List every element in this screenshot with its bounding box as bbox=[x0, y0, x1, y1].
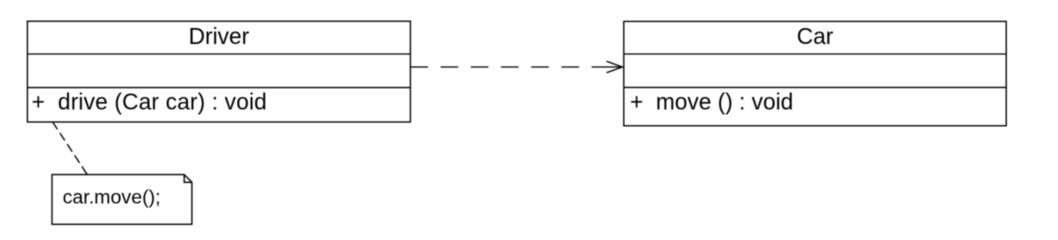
note fold triangle bbox=[184, 175, 192, 183]
Driver name/attribute divider bbox=[27, 53, 410, 55]
note anchor dashed line bbox=[53, 122, 88, 175]
dependency open arrowhead bbox=[607, 61, 623, 72]
note box with folded corner bbox=[52, 175, 192, 225]
Car name/attribute divider bbox=[624, 53, 1006, 55]
svg-text:Car: Car bbox=[797, 23, 834, 49]
svg-text:Driver: Driver bbox=[189, 23, 250, 49]
dependency arrow dashed shaft Driver to Car bbox=[410, 66, 591, 68]
class Car box bbox=[624, 21, 1006, 125]
svg-text:+ drive (Car car) : void: + drive (Car car) : void bbox=[32, 89, 267, 115]
dependency arrow solid end segment bbox=[592, 66, 623, 68]
svg-text:+ move () : void: + move () : void bbox=[630, 89, 793, 115]
svg-text:car.move();: car.move(); bbox=[63, 187, 161, 209]
class Driver box bbox=[27, 21, 410, 122]
Driver attribute/method divider bbox=[27, 87, 410, 89]
Car attribute/method divider bbox=[624, 86, 1006, 88]
